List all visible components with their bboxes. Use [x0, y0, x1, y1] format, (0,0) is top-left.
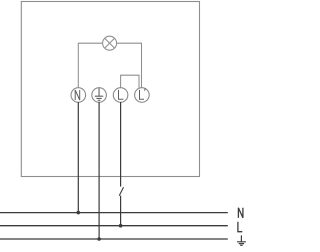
wire PE-terminal down to PE bus	[98, 102, 100, 239]
lamp E1 circle	[103, 36, 117, 50]
switch S1 blade	[119, 187, 123, 196]
terminal PE earth symbol	[95, 88, 104, 100]
junction dot PE	[97, 237, 101, 241]
wire bridge L-terminal to L'-terminal	[121, 75, 139, 88]
PE bus line	[0, 238, 228, 240]
label PE earth symbol	[237, 235, 246, 245]
junction dot L	[119, 224, 123, 228]
terminal L' letter	[140, 90, 145, 99]
terminal PE circle	[92, 88, 107, 103]
device enclosure box	[21, 2, 199, 177]
wire L-terminal down to switch	[120, 102, 122, 187]
terminal N circle	[71, 88, 86, 103]
L bus line	[0, 225, 228, 227]
lamp E1 cross	[105, 38, 115, 48]
wire lamp to L'-terminal (top run and right riser)	[117, 43, 142, 87]
terminal L letter	[119, 90, 124, 99]
terminal L circle	[113, 88, 128, 103]
wire N-terminal down to N bus	[77, 102, 79, 213]
terminal L' circle	[135, 88, 150, 103]
terminal L' apostrophe	[144, 88, 147, 90]
terminal N letter	[75, 90, 80, 100]
N bus line	[0, 212, 228, 214]
label L	[238, 222, 242, 232]
label N	[238, 208, 243, 218]
wire N-terminal to lamp (left riser and top run)	[78, 43, 102, 87]
junction dot N	[77, 211, 81, 215]
wire switch down to L bus	[120, 196, 122, 226]
